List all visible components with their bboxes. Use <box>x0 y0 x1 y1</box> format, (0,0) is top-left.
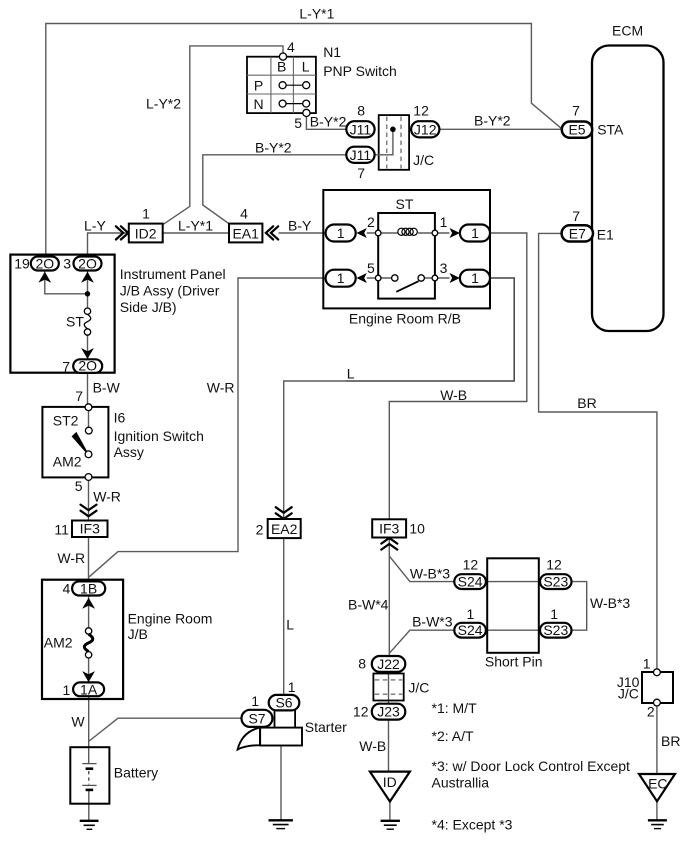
connector E7 (E1) <box>562 225 593 241</box>
wire ID triangle to ground <box>389 802 391 821</box>
ground (battery) <box>80 821 99 830</box>
svg-text:2O: 2O <box>78 255 97 271</box>
Short Pin box <box>487 558 539 653</box>
arrow up (under 1B) <box>82 598 95 609</box>
svg-text:ID: ID <box>383 774 397 790</box>
svg-text:PNP Switch: PNP Switch <box>323 63 397 79</box>
connector 2O pin 19 <box>31 255 59 271</box>
fusible link AM2 lower terminal <box>85 652 91 658</box>
connector EA2 pin 2 <box>268 519 301 538</box>
connector EA1 <box>229 224 262 243</box>
Battery box <box>70 747 109 804</box>
svg-text:J11: J11 <box>350 121 372 137</box>
svg-text:7: 7 <box>75 388 83 404</box>
svg-text:L: L <box>302 59 310 75</box>
ground (ID) <box>381 821 400 829</box>
svg-text:4: 4 <box>63 580 71 596</box>
svg-text:B-Y: B-Y <box>288 217 312 233</box>
svg-text:W-B: W-B <box>359 738 386 754</box>
svg-text:11: 11 <box>54 521 69 537</box>
svg-text:Side J/B): Side J/B) <box>120 299 177 315</box>
wire L from EA2 to starter S6 <box>283 538 285 695</box>
starter body <box>260 728 302 746</box>
svg-text:*2: A/T: *2: A/T <box>432 728 474 744</box>
svg-text:*4: Except *3: *4: Except *3 <box>432 817 513 833</box>
wire W-R from relay pin 5 down and left to Engine Room J/B 1B <box>89 278 325 577</box>
arrow connector (top right) <box>450 228 460 238</box>
junction connector J10 J/C box <box>642 672 673 703</box>
wire ignition internal ST2 <box>88 411 90 428</box>
relay ST inner box <box>378 213 435 299</box>
svg-text:S23: S23 <box>543 622 568 638</box>
svg-text:1: 1 <box>337 270 345 286</box>
connector 1A pin 1 <box>73 681 104 697</box>
svg-text:5: 5 <box>294 115 302 131</box>
wire B-Y from EA1 to relay coil oval <box>279 232 326 234</box>
svg-text:W-R: W-R <box>207 379 235 395</box>
label I6 Ignition Switch Assy <box>114 409 204 460</box>
connector S24 pin 1 <box>454 622 486 638</box>
svg-text:IF3: IF3 <box>379 520 399 536</box>
battery plate + (top long) <box>82 763 96 765</box>
svg-text:EC: EC <box>648 776 667 792</box>
ground triangle ID <box>370 772 410 802</box>
svg-text:J11: J11 <box>350 147 372 163</box>
ignition AM2 contact <box>85 451 92 458</box>
junction connector J/C (J22/J23) box <box>373 674 403 701</box>
svg-text:1: 1 <box>643 656 651 672</box>
connector S24 pin 12 <box>454 574 486 590</box>
svg-text:W: W <box>71 714 85 730</box>
wire relay coil row <box>367 232 450 234</box>
wire short pin internal top row <box>486 581 540 583</box>
connector J22 pin 8 <box>372 656 406 672</box>
wire L from relay pin 3 down to EA2 <box>346 278 514 381</box>
wire EC triangle to ground <box>656 801 658 819</box>
connector J11 pin 8 <box>346 121 374 137</box>
J10 pin 1 terminal <box>654 669 661 676</box>
wire J22 to J23 through J/C <box>388 672 390 704</box>
wire J/B internal: oval 3-2O down to fuse ST <box>87 271 89 308</box>
ground triangle EC <box>639 774 675 801</box>
svg-text:4: 4 <box>240 205 248 221</box>
svg-text:1: 1 <box>251 693 259 709</box>
svg-text:*1: M/T: *1: M/T <box>432 700 478 716</box>
svg-text:J23: J23 <box>377 704 400 720</box>
svg-text:8: 8 <box>357 102 365 118</box>
wire battery to ground <box>88 790 90 820</box>
connector E5 (STA) <box>562 121 592 137</box>
connector ID2 <box>129 224 163 243</box>
svg-text:*3: w/ Door Lock Control Excep: *3: w/ Door Lock Control Except <box>432 758 631 774</box>
battery internal dashed link <box>88 771 90 784</box>
starter neck below S6 <box>275 710 296 728</box>
svg-text:S24: S24 <box>458 622 483 638</box>
connector IF3 pin 11 <box>72 521 108 538</box>
arrow connector (bottom left) <box>356 273 366 283</box>
connector IF3 pin 10 <box>372 519 406 537</box>
battery plate - (bottom short) <box>86 789 94 792</box>
wire AM2 to 1A <box>88 658 90 682</box>
svg-text:Ignition Switch: Ignition Switch <box>114 428 204 444</box>
fuse ST upper terminal <box>84 308 90 314</box>
ignition ST2 contact <box>85 427 92 434</box>
relay switch terminal pin 3 <box>432 275 438 281</box>
svg-text:J/C: J/C <box>408 679 429 695</box>
svg-text:7: 7 <box>572 208 580 224</box>
ground (EC) <box>648 820 667 828</box>
chevrons into EA1 <box>266 226 278 239</box>
svg-text:2O: 2O <box>35 255 54 271</box>
connector 1B pin 4 <box>72 580 105 596</box>
wire B-W*3 branch to S24 pin 1 <box>389 630 454 653</box>
svg-text:2: 2 <box>256 521 264 537</box>
svg-text:L: L <box>286 617 294 633</box>
svg-text:B-W*4: B-W*4 <box>348 597 389 613</box>
label Instrument Panel J/B Assy <box>120 266 226 315</box>
arrow up (under 2O pin 3) <box>81 272 94 283</box>
wire W from 1A to battery <box>88 696 90 763</box>
wire W-B*3 loop S23 pin12 to S23 pin1 <box>572 582 587 631</box>
svg-text:J12: J12 <box>414 121 437 137</box>
svg-text:1: 1 <box>471 270 479 286</box>
relay coil terminal pin 1 <box>432 230 438 236</box>
wire B-W*4 from IF3 (10) down to J22 <box>388 538 390 657</box>
starter flange (curved horn) <box>238 728 260 750</box>
PNP pin 4 terminal <box>279 53 286 60</box>
Ignition Switch I6 box <box>42 407 108 478</box>
svg-text:5: 5 <box>75 478 83 494</box>
svg-text:P: P <box>254 77 263 93</box>
wire 1B to fusible link AM2 <box>88 596 90 628</box>
wire BR from ECM E7/E1 down to J10 and EC ground <box>539 233 657 669</box>
chevrons into IF3 (10) <box>381 538 397 550</box>
svg-text:12: 12 <box>546 556 562 572</box>
svg-text:W-R: W-R <box>57 550 85 566</box>
wire relay switch row <box>367 277 450 279</box>
svg-text:1: 1 <box>288 679 296 695</box>
svg-text:1B: 1B <box>80 580 97 596</box>
PNP P-row contact <box>279 82 310 89</box>
relay oval 1 (bottom left) <box>326 270 356 287</box>
svg-text:S7: S7 <box>248 710 265 726</box>
arrow connector (bottom right) <box>450 273 460 283</box>
svg-text:B-W: B-W <box>93 379 121 395</box>
fusible link AM2 element <box>84 634 92 651</box>
svg-text:4: 4 <box>287 39 295 55</box>
svg-text:ECM: ECM <box>612 23 643 39</box>
ignition pin 7 terminal <box>85 404 92 411</box>
wire L-Y from J/B oval 3-2O up and right to ID2 <box>88 233 129 257</box>
J/C junction dot <box>390 127 396 133</box>
battery plate - (top short) <box>86 767 94 770</box>
wire L-Y*2 from PNP pin 4 down to ID2 <box>164 46 284 224</box>
svg-text:S23: S23 <box>543 574 568 590</box>
wire W branch to starter S7 <box>89 718 242 741</box>
J/C internal wire with junction <box>375 129 393 155</box>
svg-text:1: 1 <box>467 606 475 622</box>
svg-text:1: 1 <box>550 606 558 622</box>
svg-text:W-B*3: W-B*3 <box>590 595 630 611</box>
PNP pin 5 terminal <box>303 109 310 116</box>
wire L-Y*1 between ID2 and EA1 <box>163 232 229 234</box>
relay oval 1 (bottom right) <box>460 270 490 287</box>
wire W-B*3 branch to S24 pin 12 <box>389 556 454 582</box>
chevrons into EA2 <box>276 507 292 519</box>
svg-text:J22: J22 <box>377 656 400 672</box>
svg-text:B-Y*2: B-Y*2 <box>255 140 292 156</box>
svg-text:12: 12 <box>463 556 479 572</box>
note *3 <box>432 758 631 790</box>
connector J11 pin 7 <box>346 147 374 163</box>
svg-text:Short Pin: Short Pin <box>485 654 543 670</box>
chevrons into ID2 <box>116 226 128 239</box>
wire starter to ground <box>280 746 282 820</box>
wire B-W from J/B 2O pin7 to ignition switch pin 7 <box>87 373 89 404</box>
svg-text:W-B: W-B <box>440 387 467 403</box>
svg-text:ST2: ST2 <box>53 412 79 428</box>
svg-text:E7: E7 <box>569 225 586 241</box>
ignition switch lever <box>72 432 87 452</box>
fuse ST lower terminal <box>84 329 90 335</box>
connector J23 pin 12 <box>372 704 406 720</box>
svg-text:L-Y*1: L-Y*1 <box>178 217 213 233</box>
svg-text:IF3: IF3 <box>80 521 100 537</box>
svg-text:3: 3 <box>440 260 448 276</box>
Instrument Panel J/B box <box>10 255 114 373</box>
svg-text:L-Y*1: L-Y*1 <box>299 6 334 22</box>
svg-text:12: 12 <box>413 102 429 118</box>
svg-text:L-Y: L-Y <box>84 217 106 233</box>
svg-text:B-W*3: B-W*3 <box>412 614 453 630</box>
wire B-Y*2 from J12 to ECM E5 <box>439 128 561 130</box>
svg-text:2: 2 <box>367 214 375 230</box>
svg-text:J/C: J/C <box>618 686 639 702</box>
svg-text:Assy: Assy <box>114 444 144 460</box>
relay switch moving contact <box>418 275 424 281</box>
svg-text:Battery: Battery <box>114 765 158 781</box>
fuse ST element <box>84 314 90 328</box>
svg-text:Starter: Starter <box>305 719 347 735</box>
label J10 J/C <box>617 674 640 702</box>
arrow down (over 1A) <box>82 671 95 682</box>
svg-text:EA1: EA1 <box>232 225 259 241</box>
svg-text:Engine Room R/B: Engine Room R/B <box>349 311 461 327</box>
connector 2O pin 3 <box>74 255 102 271</box>
fusible link AM2 upper terminal <box>85 628 91 634</box>
starter body divider <box>259 728 261 746</box>
svg-text:E5: E5 <box>568 121 585 137</box>
wire W-R ignition pin 5 to IF3 (11) <box>88 480 90 520</box>
ignition pin 5 terminal <box>85 474 92 481</box>
svg-text:3: 3 <box>63 255 71 271</box>
relay switch blade <box>396 281 418 292</box>
svg-text:12: 12 <box>353 704 369 720</box>
svg-text:1: 1 <box>63 682 71 698</box>
wire W-B from relay pin 1 down to IF3 (10) <box>389 233 527 519</box>
wire fuse ST to oval 7-2O <box>87 335 89 360</box>
svg-text:Australlia: Australlia <box>432 774 490 790</box>
relay coil terminal pin 2 <box>375 230 381 236</box>
svg-text:E1: E1 <box>597 226 614 242</box>
svg-text:L-Y*2: L-Y*2 <box>146 95 181 111</box>
svg-text:J/B Assy (Driver: J/B Assy (Driver <box>120 282 220 298</box>
svg-text:N1: N1 <box>323 44 341 60</box>
connector J12 pin 12 <box>411 121 439 137</box>
J10 pin 2 terminal <box>654 699 661 706</box>
wire L-Y*1 from instrument panel top-left up across to ECM E5 <box>46 24 562 257</box>
wire J/B internal: oval 19-2O to junction <box>45 271 88 294</box>
wire short pin internal bottom row <box>486 629 540 631</box>
relay oval 1 (top left) <box>326 225 356 242</box>
ground (starter) <box>269 820 293 828</box>
svg-text:1: 1 <box>337 225 345 241</box>
svg-text:2O: 2O <box>78 358 97 374</box>
svg-text:1A: 1A <box>80 681 98 697</box>
svg-text:L: L <box>347 365 355 381</box>
svg-text:S6: S6 <box>275 695 292 711</box>
svg-text:7: 7 <box>62 358 70 374</box>
svg-text:2: 2 <box>647 704 655 720</box>
svg-text:7: 7 <box>357 165 365 181</box>
svg-text:Instrument Panel: Instrument Panel <box>120 266 226 282</box>
svg-text:8: 8 <box>358 656 366 672</box>
svg-text:EA2: EA2 <box>271 521 298 537</box>
svg-text:BR: BR <box>661 733 680 749</box>
svg-text:1: 1 <box>440 214 448 230</box>
svg-text:BR: BR <box>577 395 596 411</box>
junction dot in instrument panel J/B <box>85 291 90 296</box>
svg-text:STA: STA <box>597 122 624 138</box>
svg-text:B-Y*2: B-Y*2 <box>474 112 511 128</box>
relay switch fixed contact <box>392 275 398 281</box>
svg-text:ST: ST <box>66 314 84 330</box>
svg-text:1: 1 <box>471 225 479 241</box>
svg-text:B-Y*2: B-Y*2 <box>310 114 347 130</box>
wire B-Y*2 from PNP pin 5 to J11 pin 8 <box>306 117 346 130</box>
svg-text:7: 7 <box>572 102 580 118</box>
PNP switch N1 box <box>247 57 316 113</box>
svg-text:AM2: AM2 <box>53 453 82 469</box>
connector S6 pin 1 <box>269 695 300 711</box>
svg-text:J/C: J/C <box>413 152 434 168</box>
label Engine Room J/B <box>128 610 213 642</box>
svg-text:J/B: J/B <box>128 626 148 642</box>
Engine Room J/B box <box>42 580 123 699</box>
connector S23 pin 1 <box>540 622 572 638</box>
svg-text:I6: I6 <box>114 409 126 425</box>
svg-text:19: 19 <box>14 255 30 271</box>
svg-text:B: B <box>277 59 286 75</box>
arrow down (over 2O pin 7) <box>81 348 94 359</box>
ECM body <box>592 46 664 332</box>
connector 2O pin 7 <box>73 358 102 374</box>
svg-text:Engine Room: Engine Room <box>128 610 213 626</box>
wire BR J10 pin2 to EC <box>656 706 658 775</box>
chevrons into IF3 (11) <box>81 505 97 517</box>
wire W-B from J23 to ID ground <box>388 720 390 772</box>
svg-text:5: 5 <box>367 260 375 276</box>
svg-text:W-B*3: W-B*3 <box>410 565 450 581</box>
battery plate + (bottom long) <box>82 784 96 786</box>
svg-text:ID2: ID2 <box>135 225 157 241</box>
svg-text:N: N <box>253 96 263 112</box>
PNP N-row contact <box>279 100 310 107</box>
arrow up (under 2O pin 19) <box>38 272 51 283</box>
junction connector J/C (J11/J12) box <box>379 115 409 170</box>
svg-text:W-R: W-R <box>93 489 121 505</box>
svg-text:S24: S24 <box>458 574 483 590</box>
svg-text:10: 10 <box>409 520 425 536</box>
relay switch terminal pin 5 <box>375 275 381 281</box>
svg-text:1: 1 <box>142 205 150 221</box>
wire B-Y*2 from EA1 up to J11 pin 7 <box>203 155 346 224</box>
relay coil <box>398 228 418 235</box>
svg-text:ST: ST <box>396 196 414 212</box>
connector S7 pin 1 <box>242 710 273 727</box>
arrow connector (top left) <box>356 228 366 238</box>
svg-text:AM2: AM2 <box>44 634 73 650</box>
relay oval 1 (top right) <box>460 225 490 242</box>
wire IF3 (11) to Engine Room J/B 1B <box>88 537 90 581</box>
Engine Room R/B box <box>323 190 490 308</box>
connector S23 pin 12 <box>540 574 572 590</box>
